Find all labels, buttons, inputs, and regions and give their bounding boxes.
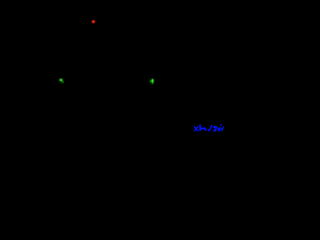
red LED core [92, 21, 95, 23]
watermark glyph 2-like [213, 126, 217, 131]
green LED 2 core bar [152, 79, 154, 84]
green LED 1 halo [59, 79, 64, 83]
watermark glyph f with bar [199, 124, 209, 130]
watermark slash [208, 125, 212, 132]
watermark glyphs VY [217, 124, 224, 131]
green LED 2 halo [150, 79, 154, 84]
red LED glow halo [91, 19, 97, 24]
red LED tail [91, 23, 93, 24]
green LED 1 tail [61, 80, 63, 83]
green LED 2 left bump [150, 81, 152, 83]
green LED 1 bright knob [60, 79, 63, 81]
green LED 2 bright spot [152, 79, 154, 82]
watermark glyph X [193, 126, 199, 131]
